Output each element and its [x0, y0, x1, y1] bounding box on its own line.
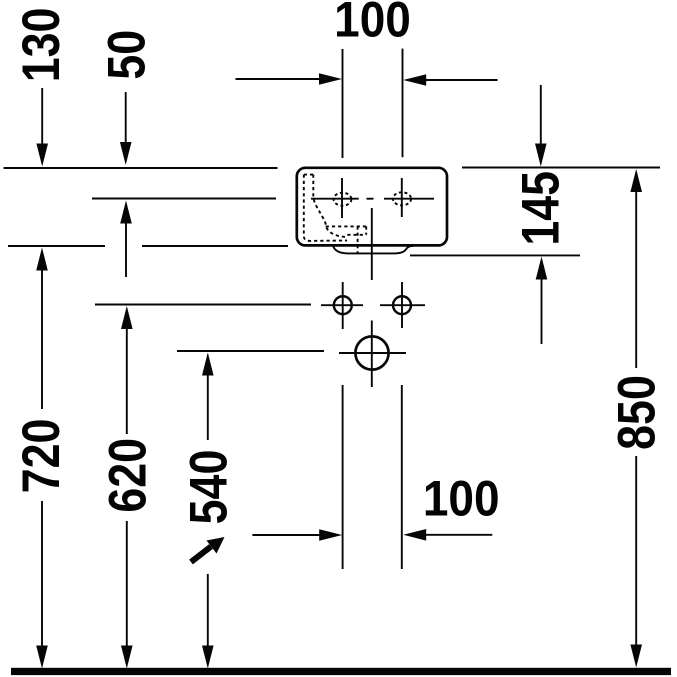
fixing hole right	[393, 296, 411, 314]
hidden outlet channel top dashed	[326, 225, 367, 227]
dimension 620 line with arrows	[121, 306, 133, 669]
svg-text:720: 720	[13, 419, 71, 494]
label 50	[98, 30, 156, 80]
dimension 130 arrow down	[36, 88, 48, 167]
reference line D (fixing hole level)	[95, 304, 311, 306]
hidden basin inner contour dashed	[313, 175, 347, 237]
dimension 720 line with arrows	[36, 248, 48, 669]
reference line E (drain level)	[177, 350, 324, 352]
dimension 100 top left arrow	[236, 73, 343, 85]
hidden basin outer contour dashed	[304, 175, 347, 241]
drain bracket below basin	[333, 246, 414, 254]
label 100 (top)	[334, 0, 411, 48]
drain hole	[355, 336, 388, 369]
tap hole crosshair horizontal right	[384, 198, 434, 200]
fixing hole crosshair horizontal right	[380, 304, 425, 306]
svg-text:850: 850	[608, 375, 666, 450]
dimension 850 line with arrows	[630, 169, 642, 668]
drain crosshair vertical	[371, 321, 373, 388]
svg-text:100: 100	[334, 0, 411, 48]
label 145	[512, 171, 570, 246]
label 100 (bottom)	[423, 472, 500, 527]
tap hole crosshair vertical right	[401, 178, 403, 217]
wall reference line A right (rim level)	[462, 167, 660, 169]
label 130	[13, 8, 71, 83]
dimension 50 arrow up	[120, 201, 132, 278]
reference line C right (basin bottom level)	[142, 245, 288, 247]
fixing hole crosshair horizontal left	[321, 304, 363, 306]
hidden outlet bottom dashed	[347, 234, 366, 236]
tap hole crosshair horizontal left	[311, 198, 359, 200]
svg-text:145: 145	[512, 171, 570, 246]
fixing hole crosshair vertical right	[401, 282, 403, 328]
fixing hole crosshair vertical left	[342, 282, 344, 329]
dimension 100 bottom right arrow	[403, 529, 492, 541]
svg-text:50: 50	[98, 30, 156, 80]
basin outline (rounded rectangle, top/section view)	[297, 168, 447, 246]
dimension 100 bottom left arrow	[252, 529, 342, 541]
tap hole right (dashed ellipse)	[393, 192, 411, 205]
svg-text:100: 100	[423, 472, 500, 527]
label 620	[99, 438, 157, 513]
dimension extension line right x402 bottom	[401, 385, 403, 569]
dimension 50 arrow down	[120, 92, 132, 165]
reference line F (bracket bottom level, 145 dim)	[410, 254, 580, 256]
hidden outlet vertical dashed right	[365, 226, 367, 234]
svg-text:620: 620	[99, 438, 157, 513]
label 720	[13, 419, 71, 494]
reference line B (tap hole level)	[92, 198, 276, 200]
tap hole crosshair horizontal centre tick	[367, 198, 374, 200]
dimension 145 arrow down	[535, 85, 547, 167]
slope direction arrow (bold, pointing up-right)	[191, 537, 225, 562]
reference line C left (basin bottom level)	[8, 245, 105, 247]
tap hole left (dashed ellipse)	[334, 193, 352, 206]
svg-text:130: 130	[13, 8, 71, 83]
dimension extension line left x343 top	[342, 49, 344, 158]
centre line through drain upper segment	[371, 208, 373, 280]
label 850	[608, 375, 666, 450]
floor line (thick)	[11, 668, 671, 675]
fixing hole left	[334, 296, 352, 314]
hidden basin rim top dashed connector	[304, 174, 314, 176]
dimension 100 top right arrow	[403, 74, 497, 86]
hidden outlet vertical dashed left	[357, 226, 359, 253]
dimension 145 arrow up	[536, 257, 548, 345]
label 540	[180, 450, 238, 525]
drain crosshair horizontal	[339, 352, 406, 354]
dimension extension line right x402 top	[402, 49, 404, 158]
tap hole crosshair vertical left	[341, 178, 343, 218]
svg-text:540: 540	[180, 450, 238, 525]
dimension extension line left x343 bottom	[342, 385, 344, 569]
dimension 540 line with arrows	[202, 353, 214, 669]
wall reference line A left (rim level)	[4, 167, 278, 169]
